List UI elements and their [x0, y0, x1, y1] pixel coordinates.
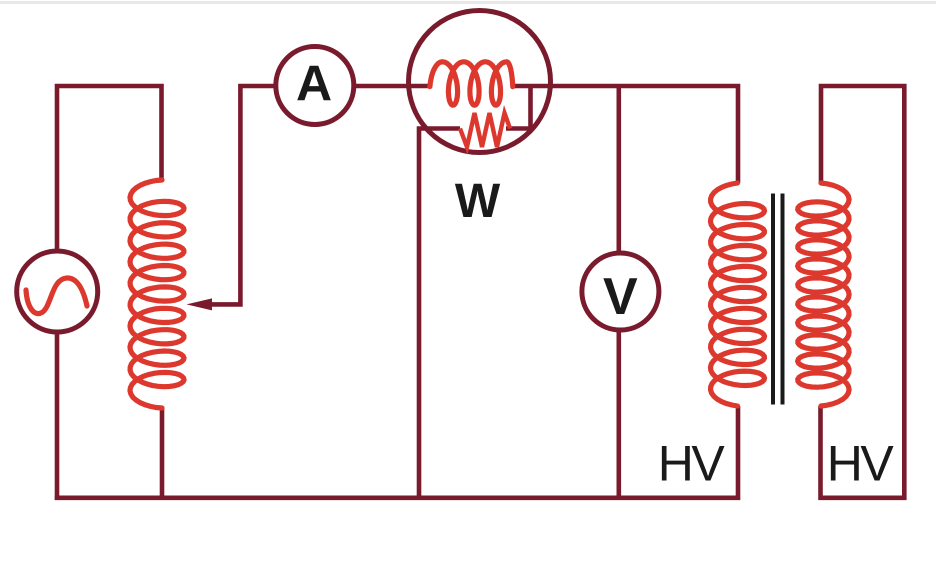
ac source V1 [17, 251, 98, 332]
wattmeter W1 [409, 11, 551, 153]
variac tap arrow [187, 298, 213, 310]
wire variac bottom stub [160, 408, 165, 498]
transformer core [773, 194, 783, 405]
voltmeter V1 [582, 253, 659, 330]
transformer T2 primary winding [711, 183, 765, 406]
wire tap to ammeter [208, 86, 276, 304]
ammeter A1 [276, 47, 354, 125]
transformer T2 secondary winding [798, 183, 849, 406]
wire wattmeter to transformer primary [513, 86, 738, 183]
wire wattmeter voltage branch down [419, 129, 460, 500]
svg-text:W: W [455, 175, 501, 228]
svg-text:V: V [603, 268, 638, 326]
wire source top to variac top [57, 86, 162, 251]
wire ammeter to wattmeter [354, 84, 430, 89]
wire secondary loop [818, 86, 904, 498]
svg-text:HV: HV [827, 436, 895, 492]
wattmeter current coil [430, 62, 513, 105]
wire bottom rail [55, 333, 741, 500]
svg-text:A: A [296, 56, 332, 112]
wire voltmeter top [616, 86, 621, 253]
variac T1 coil [130, 180, 184, 408]
wattmeter voltage coil resistor [460, 113, 510, 147]
svg-text:HV: HV [658, 436, 726, 492]
wire voltmeter bottom [616, 330, 621, 498]
wire wattmeter voltage tap step [506, 84, 531, 129]
